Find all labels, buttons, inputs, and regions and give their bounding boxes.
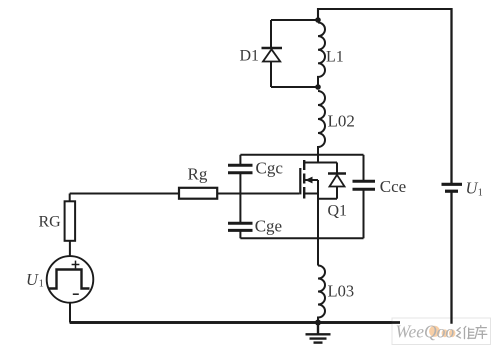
ground [306, 323, 331, 343]
capacitor Cge [228, 223, 253, 238]
capacitor Cce [353, 155, 376, 239]
resistor RG [65, 201, 76, 241]
diode body diode of Q1 [328, 163, 346, 199]
svg-text:Cgc: Cgc [256, 158, 284, 177]
watermark 维库 characters [457, 325, 487, 338]
wire right rail lower [450, 191, 452, 324]
wire gate wire left of Rg [70, 193, 179, 195]
battery U1 right [442, 8, 463, 191]
inductor L1 [318, 23, 325, 88]
svg-text:Rg: Rg [188, 165, 208, 184]
node junction top [315, 17, 321, 23]
svg-text:RG: RG [39, 214, 62, 231]
capacitor Cgc [228, 155, 253, 223]
svg-text:U: U [466, 178, 479, 197]
svg-text:L02: L02 [328, 112, 355, 131]
transistor Q1 [300, 155, 337, 239]
svg-text:D1: D1 [240, 48, 260, 65]
svg-text:Cce: Cce [380, 177, 406, 196]
resistor Rg [179, 188, 217, 199]
svg-text:L03: L03 [328, 282, 355, 301]
svg-text:1: 1 [478, 187, 483, 198]
source U1 pulse generator [47, 256, 94, 303]
node junction at ground [315, 320, 321, 326]
wire D1 bottom branch [271, 86, 318, 88]
wire top rail [318, 9, 452, 20]
inductor L03 [318, 266, 325, 323]
inductor L02 [318, 91, 325, 155]
svg-text:1: 1 [39, 278, 44, 289]
wire bottom rail overlay (visible part over watermark) [70, 321, 400, 324]
wire RG top lead [69, 194, 71, 202]
svg-text:Q1: Q1 [328, 203, 348, 220]
watermark WeeQoo box [392, 318, 491, 345]
svg-text:WeeQoo: WeeQoo [396, 321, 455, 341]
svg-text:U: U [26, 270, 39, 289]
wire inner box bottom [240, 237, 363, 239]
wire RG bottom lead [69, 241, 71, 256]
svg-text:L1: L1 [326, 49, 344, 66]
wire bottom rail [70, 321, 452, 324]
wire Q1 source down to L03 [317, 238, 319, 265]
wire gate wire right of Rg [217, 193, 299, 195]
wire inner box top rail [240, 154, 363, 156]
svg-text:Cge: Cge [255, 216, 282, 235]
diode D1 [262, 20, 283, 87]
wire D1 top branch [271, 19, 318, 21]
node junction bottom of L1 [315, 84, 321, 90]
wire U1 bottom lead [69, 303, 71, 323]
